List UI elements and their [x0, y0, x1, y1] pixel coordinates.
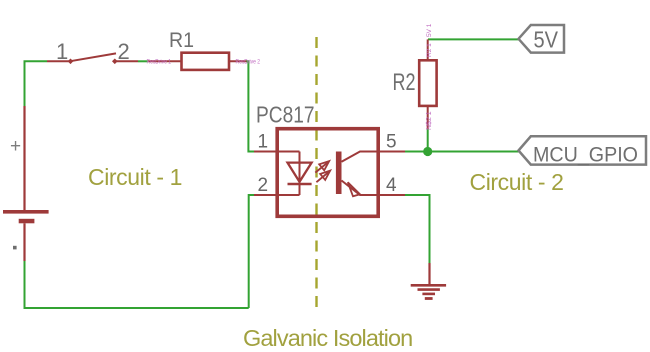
svg-text:ResDrive 2: ResDrive 2 [236, 59, 261, 66]
ground [411, 263, 446, 299]
pin 2 stub [254, 194, 278, 196]
wire bottom riser to pin 2 [249, 195, 254, 308]
svg-text:+: + [10, 136, 21, 157]
wire R1 down to pin 1 [246, 61, 254, 151]
svg-text:5V: 5V [534, 27, 559, 53]
svg-text:ResDrive 1: ResDrive 1 [147, 59, 172, 66]
svg-text:1: 1 [56, 39, 68, 64]
isolation boundary dashed line [315, 37, 317, 309]
pin 4 stub [377, 194, 405, 196]
battery B1 [3, 106, 49, 261]
pin 1 stub [254, 151, 278, 153]
light arrow lower [316, 171, 330, 183]
optocoupler U1 PC817 [254, 102, 405, 217]
svg-text:N$2 1: N$2 1 [426, 111, 433, 130]
wire switch to R1 [138, 60, 148, 62]
led cathode bar [288, 183, 312, 186]
svg-text:5: 5 [386, 132, 397, 153]
svg-text:2: 2 [258, 175, 269, 196]
wire battery minus down and bottom run [25, 261, 249, 308]
collector [342, 152, 378, 162]
switch S1 [47, 39, 138, 64]
wire pin 4 to ground [405, 195, 430, 263]
led anode line [277, 151, 300, 153]
led cathode line [277, 194, 300, 196]
svg-text:4: 4 [386, 175, 397, 196]
led triangle [288, 163, 312, 182]
resistor R2 [393, 39, 437, 151]
svg-text:Circuit - 2: Circuit - 2 [470, 169, 564, 195]
resistor R1 [148, 29, 247, 70]
svg-text:2: 2 [118, 39, 130, 64]
body box [277, 129, 378, 217]
supply flag 5V [519, 25, 565, 53]
pin 5 stub [377, 151, 405, 153]
wire pin 5 to MCU_GPIO [405, 151, 519, 153]
wire top-left corner to switch [25, 61, 48, 106]
svg-text:1: 1 [258, 132, 269, 153]
led vertical [299, 152, 301, 196]
svg-text:PC817: PC817 [256, 102, 315, 128]
svg-text:R2: R2 [393, 69, 416, 96]
svg-text:R1: R1 [169, 29, 194, 52]
phototransistor base bar [336, 152, 342, 195]
wire R2 top to 5V flag [428, 38, 519, 40]
light arrow upper [315, 161, 329, 173]
junction node [423, 147, 432, 156]
svg-text:Circuit - 1: Circuit - 1 [88, 164, 182, 190]
emitter with arrow [342, 181, 378, 196]
svg-text:Galvanic Isolation: Galvanic Isolation [243, 325, 412, 351]
svg-text:R2 1: R2 1 [426, 43, 433, 57]
svg-text:MCU_GPIO: MCU_GPIO [533, 144, 638, 167]
net flag MCU_GPIO [519, 136, 647, 166]
svg-text:5V 1: 5V 1 [426, 23, 433, 37]
